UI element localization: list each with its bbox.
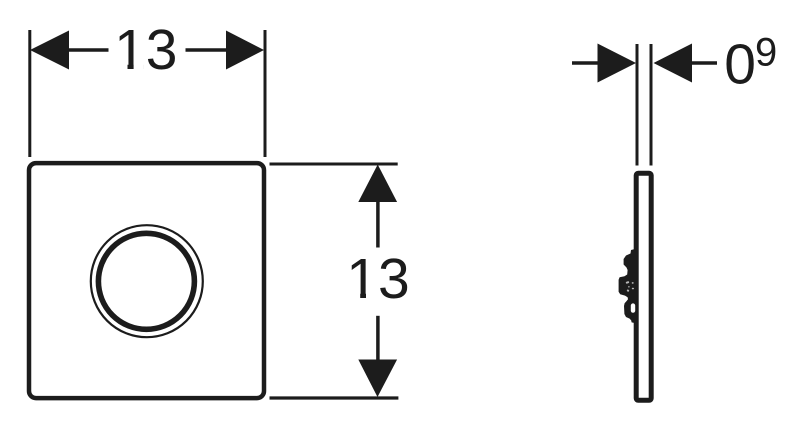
height dimension: serif mask right of digit 1 stem [366, 293, 376, 300]
width dimension: left arrowhead [30, 31, 69, 70]
thickness dimension: left line segment [572, 61, 600, 65]
front view: ring outer circle [91, 225, 203, 337]
thickness dimension: left arrowhead pointing right [598, 44, 637, 83]
height dimension: bottom extension line [270, 396, 399, 399]
side view: plate profile rectangle [636, 173, 651, 400]
thickness dimension: right arrowhead pointing left [654, 44, 693, 83]
side view: clip slot cutout [631, 303, 635, 312]
svg-text:0: 0 [724, 32, 756, 96]
svg-text:13: 13 [346, 247, 409, 311]
svg-text:9: 9 [755, 31, 777, 75]
thickness dimension: right extension line [650, 44, 653, 166]
width dimension: serif mask left of digit 1 stem [117, 64, 128, 71]
width dimension: left line segment [66, 48, 109, 52]
width dimension: left extension line [28, 30, 31, 157]
width dimension: right arrowhead [226, 31, 264, 70]
side view: clip speckle cutouts [626, 281, 634, 292]
width dimension: right extension line [264, 30, 267, 157]
svg-text:13: 13 [114, 18, 177, 82]
thickness dimension: left extension line [636, 44, 639, 166]
height dimension: lower line segment [376, 316, 380, 360]
width dimension: serif mask right of digit 1 stem [134, 64, 143, 71]
front view: plate outline [29, 163, 264, 398]
thickness dimension: right line segment [692, 61, 717, 65]
height dimension: serif mask left of digit 1 stem [349, 293, 360, 300]
height dimension: down arrowhead [358, 360, 397, 398]
front view: ring inner circle [98, 233, 194, 329]
width dimension: right line segment [186, 48, 229, 52]
height dimension: up arrowhead [358, 165, 397, 203]
height dimension: upper line segment [376, 202, 380, 248]
side view: mounting clip [619, 249, 637, 324]
height dimension: top extension line [270, 162, 398, 165]
